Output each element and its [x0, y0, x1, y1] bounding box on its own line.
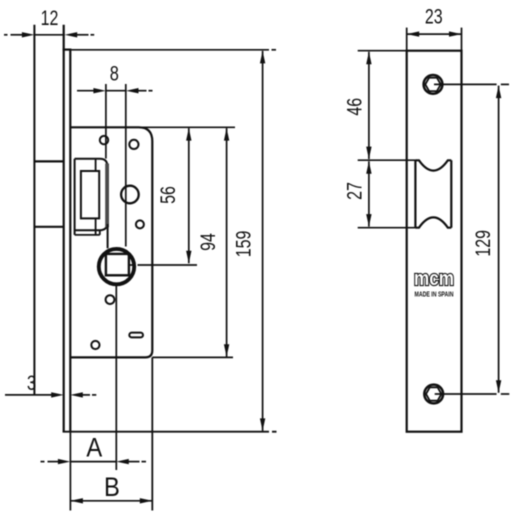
svg-text:12: 12: [41, 6, 59, 30]
svg-text:8: 8: [110, 62, 119, 85]
svg-text:3: 3: [27, 372, 36, 395]
svg-text:23: 23: [425, 5, 443, 29]
svg-text:B: B: [104, 473, 120, 503]
svg-text:46: 46: [342, 98, 366, 116]
svg-text:mcm: mcm: [414, 268, 454, 290]
svg-text:94: 94: [196, 233, 220, 251]
svg-text:A: A: [86, 433, 102, 463]
svg-text:129: 129: [471, 230, 495, 257]
svg-text:56: 56: [156, 186, 180, 204]
svg-text:MADE IN SPAIN: MADE IN SPAIN: [415, 292, 454, 299]
svg-text:27: 27: [342, 182, 366, 200]
svg-text:159: 159: [231, 231, 255, 258]
